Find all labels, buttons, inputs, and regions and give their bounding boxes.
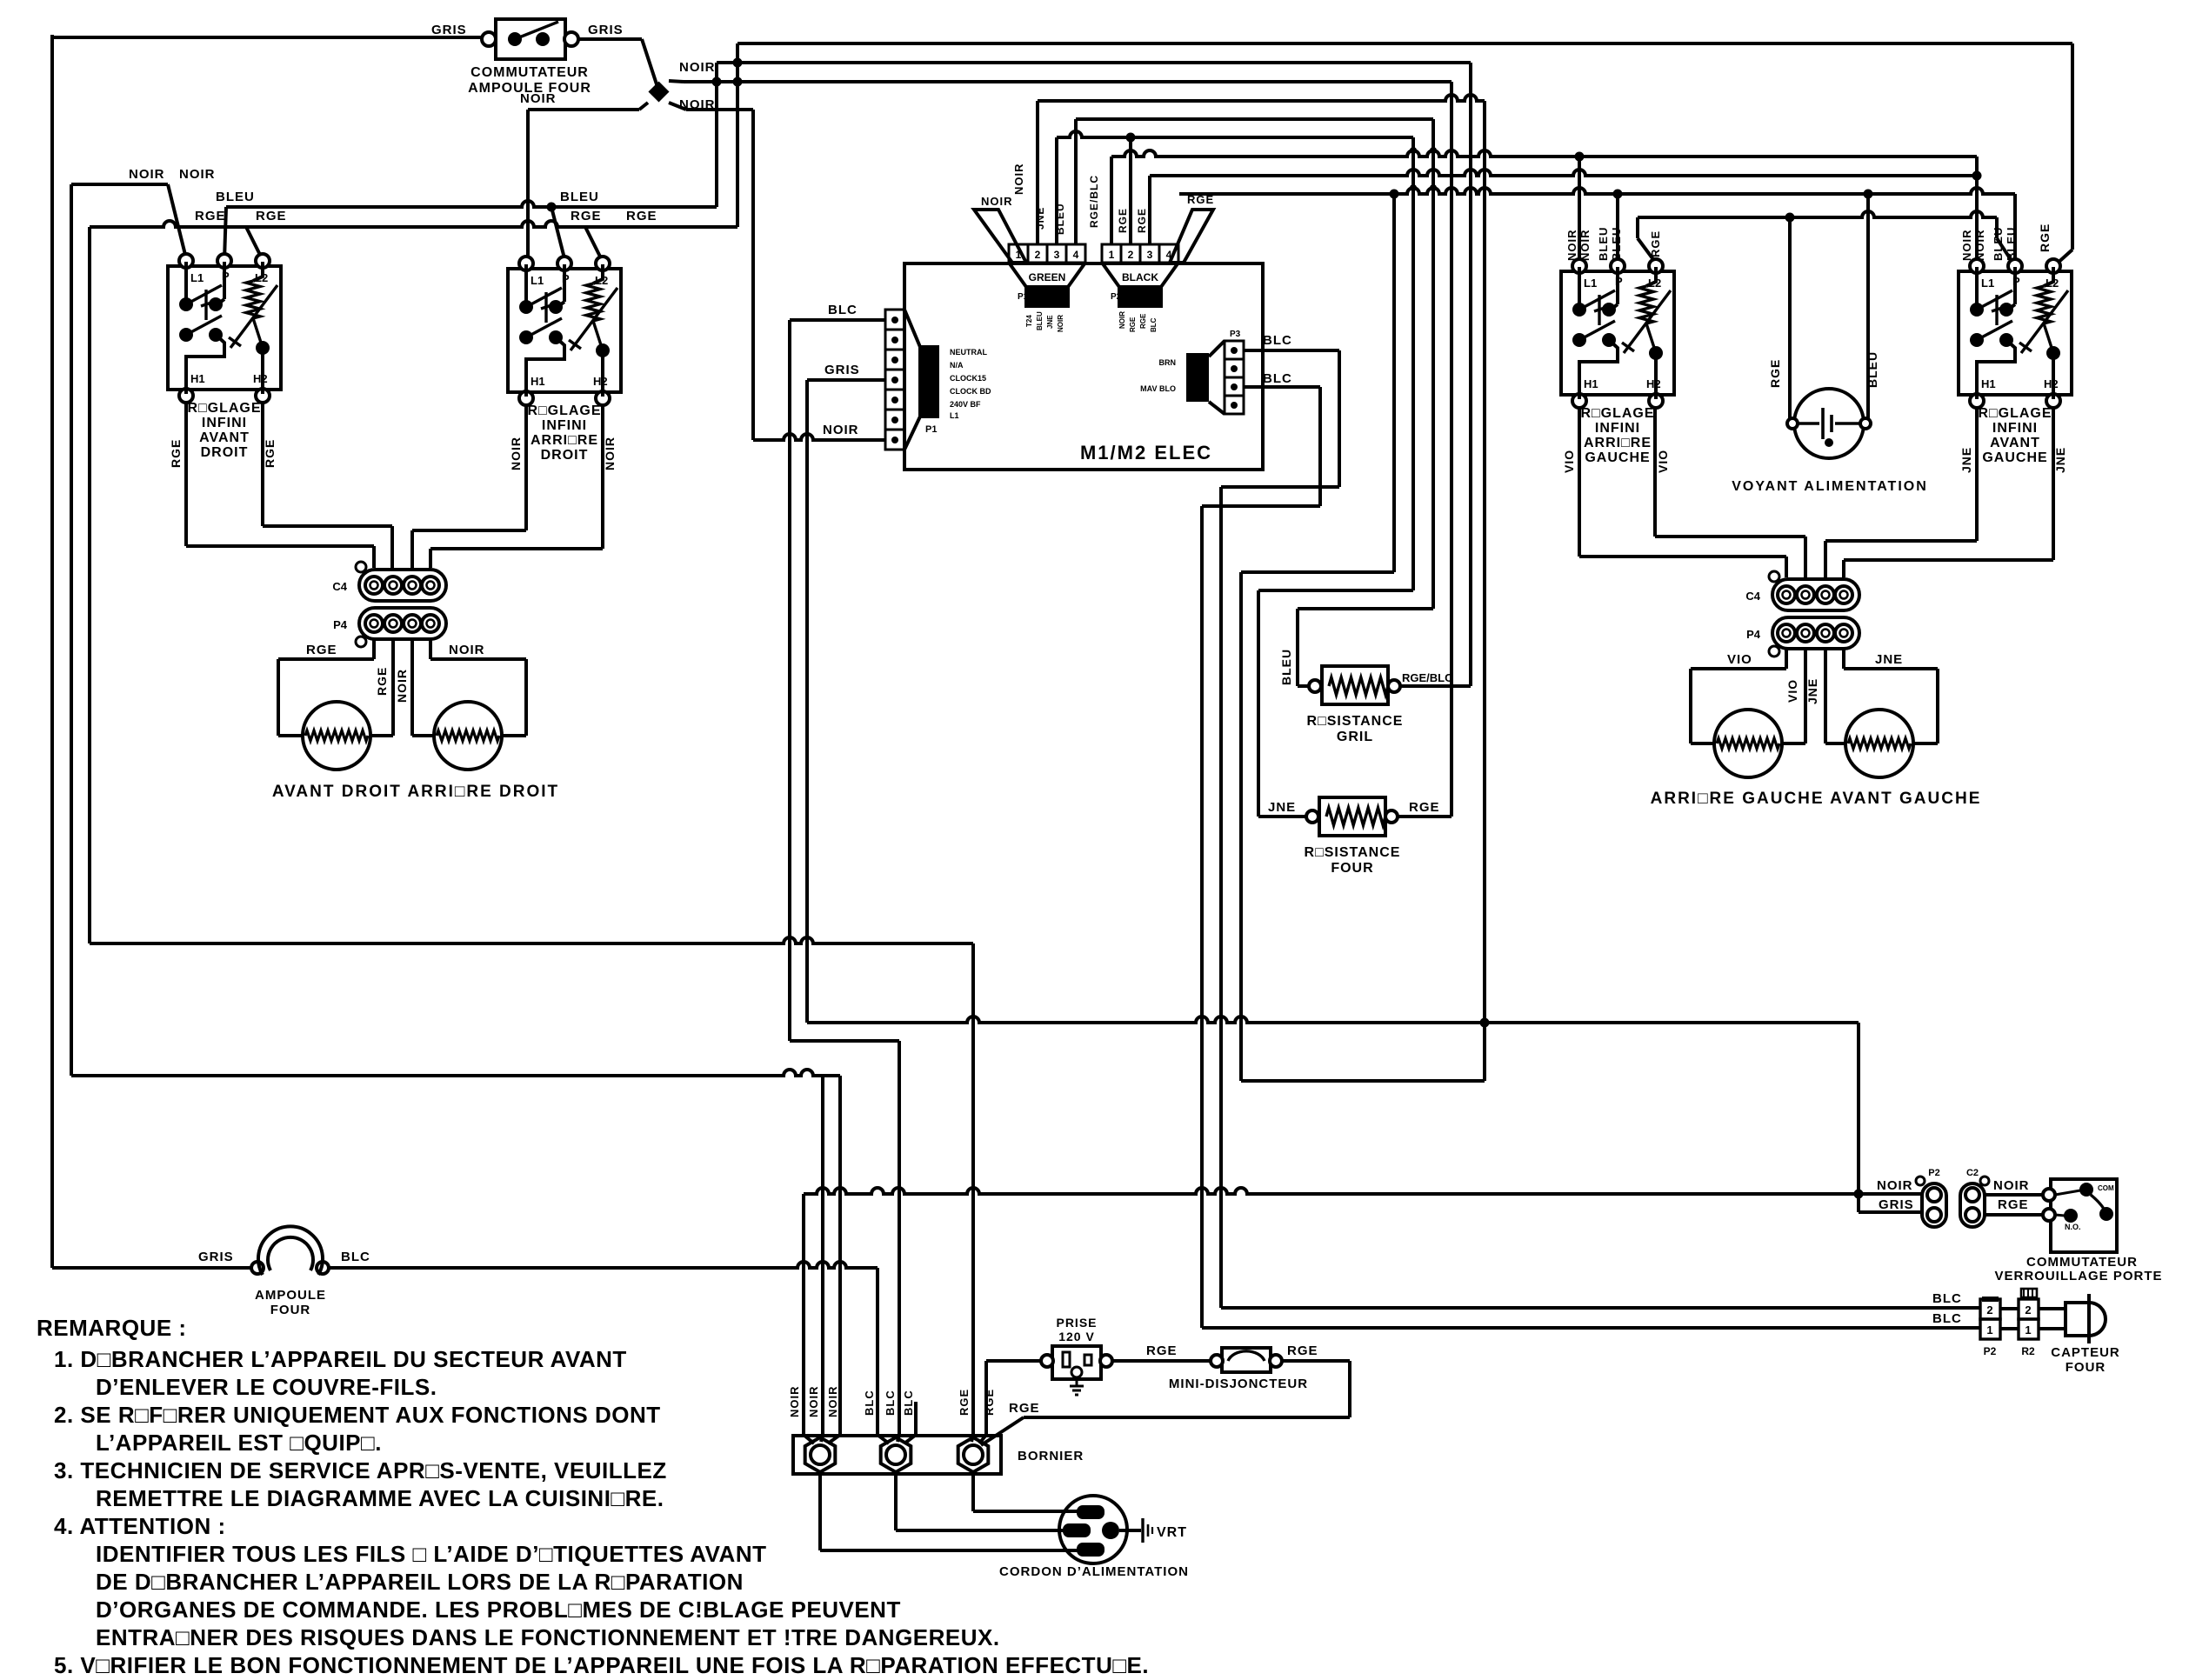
wire bus A (RGE top) [737,42,2072,45]
label RGE burner1 [306,643,337,657]
svg-text:NOIR: NOIR [1057,315,1064,332]
svg-text:CLOCK BD: CLOCK BD [950,387,991,396]
label BLC lamp [341,1250,370,1264]
label RGE 3 [571,209,602,223]
wire bus6 to box4 P [2013,194,2017,260]
svg-text:C2: C2 [1966,1168,1979,1178]
label RGE 2 [256,209,287,223]
wire NOIR X to box2 L1 [526,110,639,262]
svg-text:FOUR: FOUR [270,1303,311,1317]
label BLEU gril [1279,649,1293,685]
label RGE prise [1146,1343,1178,1358]
label ARRIÈRE GAUCHE AVANT GAUCHE [1651,790,1982,808]
svg-text:RGE: RGE [1139,313,1147,329]
svg-text:2: 2 [2025,1303,2031,1317]
wire BLACK pin1 to bus4 [1110,157,1113,244]
svg-text:R□GLAGE: R□GLAGE [1978,406,2052,421]
label NOIR NOIR ribbon [981,163,1025,209]
svg-text:JNE: JNE [2053,447,2067,473]
svg-text:NOIR: NOIR [179,167,216,182]
svg-text:L1: L1 [1584,277,1597,290]
wire bus4 [1111,150,1977,157]
label AMPOULE FOUR [255,1288,326,1317]
svg-text:AVANT DROIT ARRI□RE DROIT: AVANT DROIT ARRI□RE DROIT [272,783,559,801]
svg-text:R2: R2 [2021,1345,2035,1357]
svg-text:BLEU: BLEU [1992,227,2005,261]
svg-text:NEUTRAL: NEUTRAL [950,348,987,357]
svg-text:R□SISTANCE: R□SISTANCE [1307,714,1404,729]
svg-text:P3: P3 [1230,330,1241,339]
svg-text:AVANT: AVANT [199,430,250,445]
wire NOIR X to M1M2 vertical [686,110,753,440]
svg-text:GRIL: GRIL [1337,730,1373,744]
wire RGE to box2 L2 [585,227,603,262]
label CORDON D'ALIMENTATION [999,1564,1189,1579]
svg-text:VIO: VIO [1727,652,1752,667]
label RGE black3 [1136,208,1148,233]
svg-text:H2: H2 [593,375,608,388]
label BLC P1 [828,303,858,317]
wire blc trio into nut2 [878,1402,916,1443]
switch RÉGLAGE INFINI AVANT DROIT [168,254,281,468]
breaker MINI-DISJONCTEUR [1211,1348,1282,1372]
switch COMMUTATEUR VERROUILLAGE PORTE [2043,1179,2117,1252]
svg-text:VIO: VIO [1562,450,1576,473]
label AVANT DROIT ARRIÈRE DROIT [272,783,559,801]
svg-text:H2: H2 [2044,377,2059,390]
svg-text:ARRI□RE: ARRI□RE [1584,436,1652,450]
wire left vertical V3 (RGE) [88,227,91,943]
wire BLEU to box2 P [547,203,566,263]
svg-text:BORNIER: BORNIER [1018,1449,1084,1463]
svg-text:RGE: RGE [1117,208,1129,233]
resistor RÉSISTANCE GRIL [1298,666,1400,704]
svg-text:IDENTIFIER TOUS LES FILS □ L’A: IDENTIFIER TOUS LES FILS □ L’AIDE D’□TIQ… [96,1541,766,1567]
svg-text:H2: H2 [1646,377,1661,390]
svg-text:JNE: JNE [1034,207,1046,230]
wire left frame vertical V1 [50,35,54,1268]
svg-text:RGE: RGE [626,209,657,223]
wire BLACK pin3 to bus5 [1148,176,1151,244]
element burner ARRIÈRE DROIT [434,702,502,770]
svg-text:AMPOULE: AMPOULE [255,1288,326,1303]
svg-text:DROIT: DROIT [541,448,589,463]
svg-text:C4: C4 [1745,590,1760,603]
svg-text:NOIR: NOIR [520,91,557,106]
label NOIR vertical [395,669,409,703]
wire bus1 [1038,95,1485,101]
label BLEU [216,190,255,204]
label RGE door right [1998,1197,2029,1212]
label NOIR box4 b [1973,230,1986,262]
svg-text:RGE: RGE [195,209,226,223]
wire top feed to oven-light switch [52,36,489,39]
label JNE burner4 [1875,652,1903,667]
wire vertical to door switch [1854,1023,1864,1212]
svg-text:R□GLAGE: R□GLAGE [187,401,261,416]
svg-text:DROIT: DROIT [201,445,249,460]
wire bus3 [1057,131,1413,137]
svg-text:VERROUILLAGE PORTE: VERROUILLAGE PORTE [1994,1269,2162,1283]
label BLC right conn bottom [1263,371,1292,386]
svg-text:BLC: BLC [1150,317,1158,332]
wire BLC pin3 chain to capteur [1202,387,1320,1328]
label RGE return [1009,1401,1040,1416]
wire P4R pin3 to burner AVANT GAUCHE [1825,649,1847,743]
label RGE box3 [1649,230,1662,257]
svg-text:L1: L1 [190,271,204,284]
label BLC capteur 2 [1932,1311,1962,1326]
label NOIR left of X [520,91,557,106]
connector R2 capteur [2019,1289,2039,1357]
label RGE [195,209,226,223]
wire box3 H1 to C4 pin1 [1579,408,1786,577]
label VERROUILLAGE PORTE [1994,1269,2162,1283]
wire BLC line capteur 1 [1221,1306,1980,1310]
svg-text:NOIR: NOIR [603,437,617,470]
label NOIR door left [1877,1178,1913,1193]
svg-text:RGE: RGE [256,209,287,223]
svg-text:MAV BLO: MAV BLO [1140,384,1176,393]
svg-text:D’ORGANES DE COMMANDE. LES PRO: D’ORGANES DE COMMANDE. LES PROBL□MES DE … [96,1597,901,1623]
wire NOIR vertical bornier T1c [838,1076,842,1435]
label NOIR box3 b [1578,230,1592,262]
label RÉSISTANCE GRIL [1307,714,1404,744]
node X junction [639,81,686,110]
svg-text:VIO: VIO [1656,450,1670,473]
wire bus4 to box3 L1 [1575,152,1585,261]
wire box3 H2 to C4 pin2 [1655,408,1805,577]
svg-text:NOIR: NOIR [129,167,165,182]
label RGE bornier a [958,1389,971,1416]
svg-text:RGE: RGE [1649,230,1662,257]
svg-text:NOIR: NOIR [823,423,859,437]
svg-text:2: 2 [1035,249,1041,261]
svg-text:BLEU: BLEU [560,190,599,204]
svg-text:NOIR: NOIR [1960,230,1973,262]
wire GRIS vertical x928 [805,380,809,1023]
svg-text:R□SISTANCE: R□SISTANCE [1305,845,1401,860]
connector P2 capteur [1980,1299,2000,1357]
svg-text:NOIR: NOIR [807,1386,820,1418]
wire b7 to box3 L2 diagonal [1638,238,1655,262]
svg-text:NOIR: NOIR [1973,230,1986,262]
wire RGE bus [90,221,737,227]
svg-text:GRIS: GRIS [198,1250,234,1264]
label M1/M2 ELEC [1080,442,1212,463]
svg-text:RGE: RGE [571,209,602,223]
wire box1 H1 to C4 pin1 [186,403,374,568]
label BLEU voyant [1865,351,1879,388]
label RGE ribbon [1187,193,1214,206]
label COMMUTATEUR AMPOULE FOUR [468,65,591,96]
svg-text:RGE: RGE [1998,1197,2029,1212]
wire NOIR vertical bornier T1b [821,1076,824,1435]
svg-text:H2: H2 [253,372,268,385]
svg-text:P1: P1 [925,424,937,435]
svg-text:H1: H1 [1584,377,1598,390]
svg-text:BLEU: BLEU [2005,227,2018,261]
svg-text:GRIS: GRIS [1879,1197,1914,1212]
svg-text:REMETTRE LE DIAGRAMME AVEC LA: REMETTRE LE DIAGRAMME AVEC LA CUISINI□RE… [96,1485,664,1511]
label RGE four [1409,800,1440,815]
svg-text:RGE: RGE [263,439,277,468]
wire V3 RGE line to bornier [90,937,973,943]
wire ribbon NOIR to GREEN pin1 [974,210,1026,263]
wire noir trio into nut1 [804,1435,840,1443]
svg-text:REMARQUE :: REMARQUE : [37,1315,187,1341]
wire prise to mini-disjoncteur [1112,1359,1211,1363]
label NOIR above bus B [679,60,716,75]
svg-text:BLEU: BLEU [1865,351,1879,388]
svg-text:ENTRA□NER DES RISQUES DANS LE: ENTRA□NER DES RISQUES DANS LE FONCTIONNE… [96,1624,1000,1650]
resistor RÉSISTANCE FOUR [1258,797,1398,836]
label NOIR bornier b [807,1386,820,1418]
label RGE voyant [1768,359,1782,388]
svg-text:3: 3 [1147,249,1153,261]
wire NOIR bus to box1 L1 [71,184,186,258]
svg-text:BLC: BLC [1263,333,1292,348]
wire rge duo into nut3 [971,1435,986,1443]
svg-text:COMMUTATEUR: COMMUTATEUR [2026,1255,2138,1270]
svg-text:NOIR: NOIR [1877,1178,1913,1193]
svg-text:R□GLAGE: R□GLAGE [527,403,601,418]
svg-text:NOIR: NOIR [679,60,716,75]
svg-text:VRT: VRT [1157,1525,1187,1540]
wire bus2 [1076,117,1433,121]
svg-text:RGE: RGE [306,643,337,657]
wire BLC to P1 pin7 [790,318,885,322]
svg-text:P1: P1 [1018,292,1029,302]
wire bus B [717,61,1471,64]
wire lamp line [52,1266,257,1270]
svg-text:NOIR: NOIR [1993,1178,2030,1193]
label BLC capteur 1 [1932,1291,1962,1306]
connector P4 left [333,608,446,647]
wire BLEU bus [226,201,717,207]
svg-text:NOIR: NOIR [1565,230,1578,262]
wire GREEN pin4 to bus2 [1074,119,1078,244]
wire bus A vertical to box4 L2 [2055,43,2072,265]
wire box2 H1 to C4 pin3 [412,405,526,568]
wire left vertical V2 (NOIR) [70,184,73,1076]
plug CORDON D'ALIMENTATION [1059,1496,1127,1563]
label BLEU box4 b [2005,227,2018,261]
svg-text:L1: L1 [950,411,959,420]
svg-text:BLC: BLC [1932,1311,1962,1326]
wire C2 to door switch pin2 [1985,1213,2046,1217]
svg-text:BLACK: BLACK [1122,271,1158,283]
svg-text:L’APPAREIL EST □QUIP□.: L’APPAREIL EST □QUIP□. [96,1430,382,1456]
label RGE disjoncteur [1287,1343,1318,1358]
terminal block BORNIER box [793,1436,1001,1474]
wire P4 pin3 to burner ARRIÈRE DROIT [412,639,436,736]
svg-text:P4: P4 [333,618,348,631]
svg-text:INFINI: INFINI [1992,421,2038,436]
wire bus6 [1179,188,2015,194]
svg-text:3: 3 [1054,249,1060,261]
label RGE 4 [626,209,657,223]
svg-text:RGE: RGE [1768,359,1782,388]
wire V2 NOIR line to bornier [71,1070,840,1076]
svg-text:BLC: BLC [884,1390,897,1416]
wire vertical x1625 chain to resistance four [1258,137,1413,817]
svg-text:R□GLAGE: R□GLAGE [1580,406,1654,421]
node dot bus6 x1860 [1613,190,1623,199]
lamp VOYANT ALIMENTATION [1787,389,1871,458]
svg-text:P2: P2 [1928,1168,1939,1178]
wire BLC line capteur 2 [1202,1326,1980,1330]
label NOIR box1 b [179,167,216,182]
wire capteur links [2000,1309,2066,1329]
connector GREEN header on M1/M2 [1009,244,1085,332]
label NOIR right of X [679,97,716,112]
svg-text:BLEU: BLEU [1610,227,1623,261]
svg-text:2: 2 [1986,1303,1992,1317]
wire BLC line to bornier T2 [790,1041,899,1435]
svg-text:NOIR: NOIR [788,1386,801,1418]
svg-text:NOIR: NOIR [449,643,485,657]
label NOIR box4 a [1960,230,1973,262]
svg-text:1: 1 [1109,249,1115,261]
wire P4 pin4 to burner ARRIÈRE DROIT [430,639,526,736]
lamp AMPOULE FOUR [251,1226,329,1275]
wire GREEN pin3 to bus3 [1055,137,1058,244]
svg-text:4: 4 [1073,249,1079,261]
svg-text:5. V□RIFIER LE BON FONCTIONNE: 5. V□RIFIER LE BON FONCTIONNEMENT DE L’A… [54,1652,1149,1678]
connector right of M1/M2 [1140,330,1244,414]
wire NOIR vertical bornier T1a [802,1194,805,1435]
wire vertical x824 bus B to BLEU bus [712,63,722,207]
switch RÉGLAGE INFINI ARRIÈRE DROIT [508,257,621,470]
svg-text:CORDON D’ALIMENTATION: CORDON D’ALIMENTATION [999,1564,1189,1579]
element burner AVANT DROIT [303,702,370,770]
wire P4R pin4 to burner AVANT GAUCHE [1844,649,1938,743]
label CAPTEUR FOUR [2051,1345,2120,1375]
label VIO vertical right [1785,679,1799,703]
svg-text:H1: H1 [531,375,545,388]
label NOIR box1 [129,167,165,182]
wire vertical x1669 to resistance four right [1398,82,1452,817]
svg-text:VOYANT ALIMENTATION: VOYANT ALIMENTATION [1732,479,1928,494]
sensor CAPTEUR FOUR [2066,1294,2106,1343]
svg-text:NOIR: NOIR [826,1386,839,1418]
connector BLACK header on M1/M2 [1102,244,1178,332]
svg-text:H1: H1 [1981,377,1996,390]
svg-text:240V BF: 240V BF [950,400,981,409]
svg-text:4. ATTENTION :: 4. ATTENTION : [54,1513,226,1539]
svg-text:FOUR: FOUR [1331,861,1373,876]
svg-text:ARRI□RE: ARRI□RE [531,433,598,448]
wire vertical x1707 bus1 down [1483,101,1486,1023]
svg-text:L1: L1 [531,274,544,287]
wire BLACK pin2 to bus3 [1126,133,1136,245]
svg-text:RGE/BLC: RGE/BLC [1402,671,1453,684]
svg-text:BLEU: BLEU [1054,203,1066,235]
wire bus4 to box4 L1 [1975,157,1979,260]
svg-text:GRIS: GRIS [431,23,467,37]
svg-text:JNE: JNE [1875,652,1903,667]
label NOIR P1 [823,423,859,437]
svg-text:3. TECHNICIEN DE SERVICE APR□: 3. TECHNICIEN DE SERVICE APR□S-VENTE, VE… [54,1457,667,1483]
label BLEU box3 b [1610,227,1623,261]
label GRIS right of S1 [588,23,624,37]
label BLEU green3 [1054,203,1066,235]
connector P4 right [1746,617,1859,657]
svg-text:NOIR: NOIR [509,437,523,470]
svg-text:RGE: RGE [169,439,183,468]
svg-text:BLC: BLC [863,1390,876,1416]
svg-text:120 V: 120 V [1058,1330,1095,1343]
wire RGE bornier to prise [986,1361,1047,1435]
svg-text:BLC: BLC [902,1390,915,1416]
svg-text:NOIR: NOIR [1578,230,1592,262]
label MINI-DISJONCTEUR [1169,1377,1308,1391]
label RGE right edge [2038,223,2052,252]
wire plug ground to VRT [1119,1518,1152,1543]
connector P2 door [1916,1168,1946,1227]
label BLEU box3 a [1597,227,1610,261]
wire vertical x1648 chain to resistance gril [1298,119,1433,686]
wire voyant BLEU up [1866,194,1870,419]
label RGE/BLC black1 [1088,175,1100,228]
svg-text:N/A: N/A [950,361,964,370]
connector C2 door [1960,1168,1989,1227]
wire P4R pin2 to burner ARRIÈRE GAUCHE [1780,649,1805,743]
svg-text:JNE: JNE [1805,678,1819,704]
svg-text:RGE/BLC: RGE/BLC [1088,175,1100,228]
node dot hop tips b4 [1410,147,1437,154]
wire C2 to door switch pin1 [1985,1193,2046,1197]
wire BLEU to box1 P [224,207,226,260]
svg-text:DE D□BRANCHER L’APPAREIL LORS: DE D□BRANCHER L’APPAREIL LORS DE LA R□PA… [96,1569,744,1595]
svg-text:RGE: RGE [2038,223,2052,252]
svg-text:2: 2 [1128,249,1134,261]
svg-text:M1/M2 ELEC: M1/M2 ELEC [1080,442,1212,463]
svg-text:MINI-DISJONCTEUR: MINI-DISJONCTEUR [1169,1377,1308,1391]
label RGE/BLC gril [1402,671,1453,684]
svg-text:VIO: VIO [1785,679,1799,703]
svg-text:D’ENLEVER LE COUVRE-FILS.: D’ENLEVER LE COUVRE-FILS. [96,1374,437,1400]
svg-text:CLOCK15: CLOCK15 [950,374,986,383]
svg-text:GAUCHE: GAUCHE [1982,450,2047,465]
wire bus5 [1150,170,1977,176]
element burner ARRIÈRE GAUCHE [1714,710,1782,777]
label VRT [1157,1525,1187,1540]
svg-text:NOIR: NOIR [1012,163,1025,196]
svg-text:BRN: BRN [1159,358,1177,367]
label BLC bornier a [863,1390,876,1416]
svg-text:RGE: RGE [1136,208,1148,233]
wire box4 H1 to C4 pin3 [1825,408,1977,577]
svg-text:BLC: BLC [1263,371,1292,386]
terminal bornier nut 3 [958,1437,989,1472]
label RGE black2 [1117,208,1129,233]
label JNE four [1268,800,1296,815]
svg-text:RGE: RGE [375,667,389,696]
svg-text:1. D□BRANCHER L’APPAREIL DU S: 1. D□BRANCHER L’APPAREIL DU SECTEUR AVAN… [54,1346,627,1372]
node dot hop tips b6 [1410,184,1437,191]
terminal bornier nut 1 [805,1437,836,1472]
label VIO burner3 [1727,652,1752,667]
wire NOIR to P1 pin1 [753,434,885,440]
wire RGE to box1 L2 [246,227,263,260]
label JNE vertical right [1805,678,1819,704]
svg-text:COM: COM [2098,1184,2114,1192]
label COMMUTATEUR door [2026,1255,2138,1270]
label BORNIER [1018,1449,1084,1463]
label BLC bornier c [902,1390,915,1416]
